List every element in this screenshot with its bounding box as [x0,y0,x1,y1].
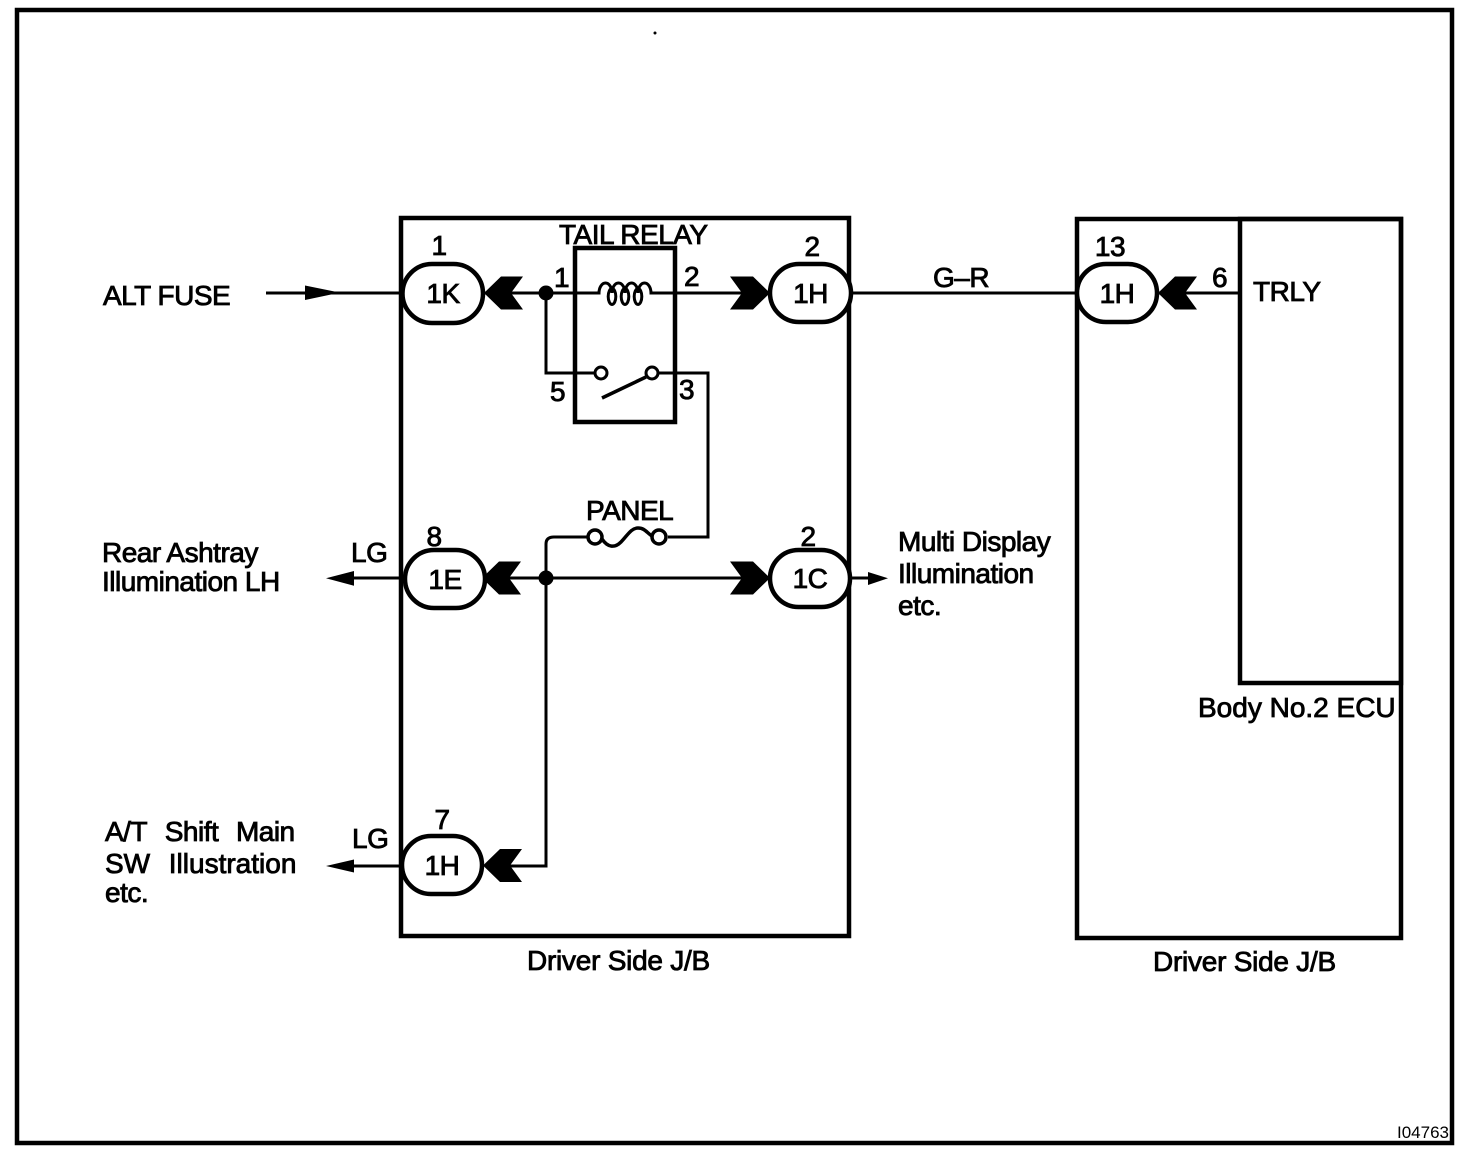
svg-text:1: 1 [431,230,446,261]
wire: node B left to connector 1E [485,577,546,580]
wire: 1C out of J/B to the right [850,577,869,580]
svg-text:2: 2 [684,261,699,292]
svg-text:1C: 1C [793,563,828,594]
svg-text:LG: LG [352,823,388,854]
svg-text:ALT FUSE: ALT FUSE [103,280,230,311]
fuse PANEL [588,528,666,546]
svg-text:A/T Shift Main: A/T Shift Main [105,816,295,847]
wire: relay coil lead inside relay to pin 2 and out to connector 1H [652,292,770,295]
svg-text:13: 13 [1095,231,1125,262]
svg-text:1E: 1E [428,564,461,595]
svg-text:1H: 1H [793,278,828,309]
wire: node B down to connector 1H (7) row [510,578,546,866]
node B junction dot on middle wire [539,571,554,586]
svg-text:etc.: etc. [898,590,941,621]
arrowhead to Rear Ashtray Illumination [326,571,354,586]
svg-text:1H: 1H [425,850,460,881]
svg-text:Rear Ashtray: Rear Ashtray [102,537,258,568]
svg-text:1K: 1K [426,278,460,309]
relay switch blade [602,377,646,398]
relay coil [575,283,675,293]
svg-text:G–R: G–R [933,262,989,293]
wire: G-R wire from 1H (left J/B) to 1H (right J/B) [851,292,1077,295]
chevron arrow into 1K (pointing left) [484,277,523,310]
node A junction dot on top wire [539,286,554,301]
arrowhead on ALT FUSE wire [305,286,340,301]
svg-text:5: 5 [550,376,565,407]
block: Driver Side J/B (right junction block) [1077,219,1401,938]
wire: ALT FUSE feed into connector 1K [266,292,403,295]
wire: PANEL fuse to node B [546,537,588,578]
chevron arrow into 1H13 (pointing left) [1158,277,1197,310]
svg-text:8: 8 [426,521,441,552]
svg-text:7: 7 [434,804,449,835]
svg-text:TAIL RELAY: TAIL RELAY [559,219,708,250]
wire: 1H (13) to Body No.2 ECU pin 6 TRLY [1157,292,1240,295]
wire: connector 1K to junction node A to relay pin 1 [483,292,575,295]
svg-text:PANEL: PANEL [586,495,673,526]
chevron arrow into 1C (pointing right) [730,562,770,595]
svg-text:Multi Display: Multi Display [898,526,1051,557]
svg-text:SW Illustration: SW Illustration [105,848,296,879]
wire: 1H (7) out of J/B to the left [350,865,403,868]
svg-text:2: 2 [800,521,815,552]
svg-text:3: 3 [679,374,694,405]
svg-text:Illumination: Illumination [898,558,1034,589]
arrowhead to A/T Shift Main SW [326,860,354,873]
svg-text:1: 1 [554,262,569,293]
block: Body No.2 ECU [1240,219,1401,683]
connector 1H (pin 7) [402,836,482,894]
wire: node A down to relay pin 5 [546,293,595,373]
svg-text:Driver Side J/B: Driver Side J/B [1153,946,1336,977]
chevron arrow into 1E (pointing left) [482,562,521,595]
connector 1K [403,264,484,323]
connector 1H (pin 2, left J/B) [770,264,851,322]
svg-text:LG: LG [351,537,387,568]
chevron arrow into 1H2 (pointing right) [730,277,770,310]
wire: node B right to connector 1C [546,577,742,580]
connector 1C [770,550,850,607]
chevron arrow into 1H7 (pointing left) [483,849,522,882]
relay TAIL RELAY box [575,248,675,422]
svg-text:I04763: I04763 [1397,1123,1449,1142]
svg-text:2: 2 [804,231,819,262]
svg-text:Illumination LH: Illumination LH [102,566,280,597]
wire: 1E out of J/B to the left [350,577,405,580]
svg-text:6: 6 [1212,262,1227,293]
relay switch contact pin 5 [595,367,607,379]
wire: relay pin 3 out, down to PANEL fuse [658,373,708,537]
connector 1H (pin 13, right J/B) [1077,264,1157,322]
svg-text:1H: 1H [1100,278,1135,309]
connector 1E [405,550,485,608]
svg-text:etc.: etc. [105,877,148,908]
svg-text:Driver Side J/B: Driver Side J/B [527,945,710,976]
svg-text:TRLY: TRLY [1253,276,1321,307]
block: Driver Side J/B (left junction block) [401,218,849,936]
arrowhead to Multi Display Illumination [868,572,888,585]
relay switch contact pin 3 [646,367,658,379]
svg-text:Body No.2 ECU: Body No.2 ECU [1198,692,1396,723]
